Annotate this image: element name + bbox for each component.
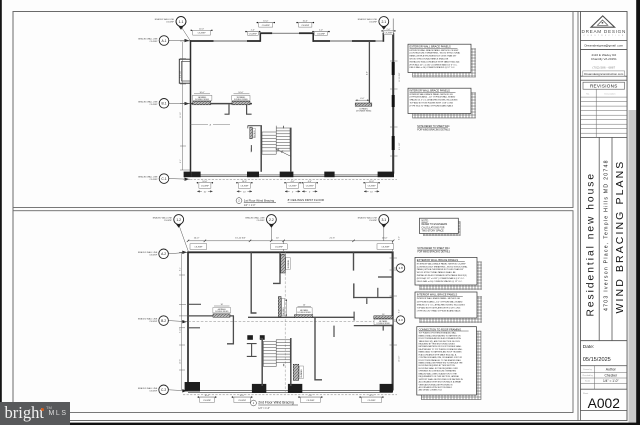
svg-text:CS-WSP: CS-WSP [201,185,210,187]
braced wall line label A.2 [138,251,158,257]
svg-text:A.1: A.1 [162,39,167,43]
svg-text:2.2: 2.2 [269,218,274,222]
svg-text:CS-WSP: CS-WSP [306,400,315,402]
note box: engineers calculations (plan2) [420,218,461,236]
closet stub walls below wall B.1 [225,104,230,114]
svg-text:CONNECTION TO ROOF FRAMING: CONNECTION TO ROOF FRAMING [419,327,462,331]
svg-text:CS-WSP: CS-WSP [368,400,377,402]
author/checker table [581,366,628,390]
stair treads plan2 (left run) [263,340,276,367]
balloon 2.2 [267,215,284,251]
svg-text:CONTINUOUS BAND, RIM, OR HEADE: CONTINUOUS BAND, RIM, OR HEADER JOIST OR [419,356,463,359]
svg-text:WOOD STRUCTURAL PANELS SHALL B: WOOD STRUCTURAL PANELS SHALL BE [417,271,456,274]
wall: plan2 right exterior [392,251,394,390]
svg-text:1st Floor Wind Bracing: 1st Floor Wind Bracing [244,198,275,202]
vertical text section [581,137,628,340]
hatch bar on mid wall (4B) [294,315,312,318]
svg-text:Checked by: Checked by [582,375,593,377]
right dimension ticks plan2 [390,258,398,345]
svg-text:10'-0": 10'-0" [242,181,247,183]
dream design triangle logo [591,16,615,27]
svg-text:CS-WSP: CS-WSP [150,41,159,43]
svg-text:BLOCKING SHALL NOT BE REQUIRED: BLOCKING SHALL NOT BE REQUIRED OVER [419,367,459,370]
svg-text:4'-0": 4'-0" [366,71,368,75]
svg-text:(CONTINUOUSLY SHEATHING - WOOD: (CONTINUOUSLY SHEATHING - WOOD STRUCTURA… [417,265,469,268]
braced wall line label 3.1 [358,217,378,223]
right dimension texts plan2 [398,236,403,362]
svg-text:CS-WSP: CS-WSP [198,33,207,35]
svg-text:10'-0": 10'-0" [369,181,374,183]
interior wall B.1 horizontal [191,103,253,105]
svg-text:DOUBLE SIDED: DOUBLE SIDED [234,99,249,101]
svg-text:5'-6 1/2": 5'-6 1/2" [180,70,182,78]
top viewport frame [13,12,573,208]
right dimension texts plan1 [399,72,401,150]
top CS-WSP boxes plan2 [190,244,394,249]
bottom CS-WSP boxes plan2 [198,395,217,402]
stairwell right wall [290,128,292,172]
svg-text:EXTERIOR WALL BRACE PANELS: EXTERIOR WALL BRACE PANELS [417,258,459,262]
svg-text:OPENINGS IN CONTINUOUSLY SHEAT: OPENINGS IN CONTINUOUSLY SHEATHED [419,370,457,373]
svg-text:1/4" = 1'-0": 1/4" = 1'-0" [258,407,270,410]
svg-text:A.2: A.2 [161,252,166,256]
date box [581,341,628,366]
svg-text:2nd Floor Wind Bracing: 2nd Floor Wind Bracing [258,401,294,405]
stair treads plan2 (right run) [276,340,290,363]
svg-text:CS-WSP: CS-WSP [238,400,247,402]
svg-text:4'-0": 4'-0" [308,395,312,397]
svg-text:BRACED WALL LINE: BRACED WALL LINE [138,387,158,390]
svg-text:BRACED WALL LINE: BRACED WALL LINE [153,217,173,220]
svg-text:1/4" = 1'-0": 1/4" = 1'-0" [603,379,619,383]
svg-text:10'-10": 10'-10" [398,356,400,362]
svg-text:BRACED WALL LINE: BRACED WALL LINE [155,18,175,21]
svg-text:CS-WSP: CS-WSP [257,220,266,222]
svg-text:BRACED WALL LINE: BRACED WALL LINE [138,318,158,321]
svg-text:ROOF TRUSS PARALLEL TO THE BRA: ROOF TRUSS PARALLEL TO THE BRACED WALL [419,359,462,362]
vertical dim arrow at x286 [285,299,287,316]
svg-text:CS-WSP: CS-WSP [166,22,175,24]
svg-text:CS-WSP: CS-WSP [306,185,315,187]
svg-text:CS-WSP: CS-WSP [149,254,158,256]
wall x315 plan2 [315,317,322,380]
svg-text:3'-6": 3'-6" [251,148,253,152]
svg-text:10'-0": 10'-0" [240,395,245,397]
logo box [581,12,628,41]
dashed braced line B.2 [184,321,396,323]
svg-text:INSTALLED IN ACCORDANCE WITH T: INSTALLED IN ACCORDANCE WITH TABLE R602.… [410,60,460,63]
sheet number box [581,389,628,410]
svg-text:15'-10 3/4": 15'-10 3/4" [235,238,246,240]
svg-text:BRACED WALL LINES. IN ADDITION: BRACED WALL LINES. IN ADDITION TO THE [419,372,458,375]
balloon 2.1 [379,17,393,34]
braced wall line label 2.2 [245,217,265,223]
svg-text:4'-0": 4'-0" [308,181,312,183]
svg-text:Author: Author [606,368,617,372]
bottom dashed reference line plan1 [183,178,397,180]
svg-text:4703 Iverson Place, Temple Hil: 4703 Iverson Place, Temple Hills MD 2074… [604,159,610,311]
svg-text:TOP PLATES OF EXTERIOR BRACED: TOP PLATES OF EXTERIOR BRACED WALL [419,332,457,335]
svg-text:FIELD NAIL at 16) COMMON SPACE: FIELD NAIL at 16) COMMON SPACED @ 12" O.… [410,66,456,69]
balloon 1.2 [174,215,188,251]
stub above h wall plan2 [377,288,379,298]
svg-text:9'-1": 9'-1" [180,159,182,163]
svg-text:WIND BRACING PLANS: WIND BRACING PLANS [614,160,626,314]
label box v2 panel [286,258,290,270]
svg-text:1/4" = 1'-0": 1/4" = 1'-0" [244,204,256,207]
svg-text:CS-WSP: CS-WSP [164,220,173,222]
svg-text:Sheet: Sheet [583,392,589,395]
svg-text:3'-10": 3'-10" [180,328,182,333]
bottom viewport frame [13,211,573,413]
stair break line plan1 [276,149,291,157]
bright MLS watermark [0,402,70,425]
balloon 2.3 [394,316,405,324]
svg-text:(GYPSUM BOARD) - 1/2" GYPSUM W: (GYPSUM BOARD) - 1/2" GYPSUM WALL BOARD [410,96,456,99]
svg-text:CS-WSP: CS-WSP [203,400,212,402]
svg-text:Date:: Date: [583,344,594,350]
hatch panel right of stair plan2 [293,364,298,380]
svg-text:10'-0": 10'-0" [200,92,205,94]
svg-text:10'-0": 10'-0" [382,238,388,240]
address box [581,50,628,77]
label box 1A panel [192,92,212,101]
bottom wall piers [184,172,394,178]
scan edge: bottom black bar [0,423,640,425]
svg-text:BLOCKING REQUIRED BY THIS SECT: BLOCKING REQUIRED BY THIS SECTION. [419,365,456,367]
svg-text:10'-0": 10'-0" [202,181,207,183]
left dimension ticks plan2 [179,252,187,390]
svg-text:REVISIONS: REVISIONS [590,84,618,89]
svg-text:4'-0": 4'-0" [360,98,364,100]
svg-text:3.1: 3.1 [381,218,386,222]
svg-text:BE ATTACHED TO TOP PLATES OF B: BE ATTACHED TO TOP PLATES OF BRACED WALL [419,348,463,351]
svg-text:EXTERIOR WALL BRACE PANEL: ME: EXTERIOR WALL BRACE PANEL: METHOD CS-WSP [410,49,459,52]
svg-text:CS-WSP: CS-WSP [381,247,390,249]
stub x334 plan2 [333,326,335,337]
svg-text:CS-WSP: CS-WSP [385,33,394,35]
wall stub x251 plan1 [250,145,252,151]
svg-text:CS-WSP: CS-WSP [149,390,158,392]
svg-text:CS-WSP: CS-WSP [249,33,258,35]
wall: plan2 bottom exterior (sill lines) [188,391,393,393]
scan edge: right black bar [636,0,640,425]
svg-text:PANEL) WITH A THICKNESS NOT LE: PANEL) WITH A THICKNESS NOT LESS THAN 3/… [410,55,457,58]
svg-text:(GYPSUM BOARD) - 1/2" GYPSUM W: (GYPSUM BOARD) - 1/2" GYPSUM WALL BOARD [417,300,463,303]
svg-text:VENTILATION SHALL BE PROVIDED: VENTILATION SHALL BE PROVIDED IN [419,383,453,386]
svg-text:9'-1": 9'-1" [402,264,404,268]
wall: plan1 right exterior [392,33,394,174]
balloon 3.1 [379,215,393,251]
svg-text:ACCORDANCE WITH SECTION R806.1: ACCORDANCE WITH SECTION R806.1 [419,386,453,389]
svg-text:11'-10 5/8": 11'-10 5/8" [399,72,401,82]
corner pier bottom-left plan2 [185,382,200,391]
svg-text:2.3: 2.3 [399,318,404,322]
svg-text:BRACED WALL LINE: BRACED WALL LINE [138,176,158,179]
svg-text:CS-WSP: CS-WSP [262,25,271,27]
svg-text:SUPPORT SHALL BE PROVIDED FOR: SUPPORT SHALL BE PROVIDED FOR RAFTERS IN [419,378,464,381]
scan edge: left black line [0,0,2,403]
label box for v2 lower panel [282,298,285,316]
door jamb blocks corridor plan2 [247,335,253,340]
svg-text:Dreamdesignconstruction.com: Dreamdesignconstruction.com [584,72,624,76]
svg-text:B.2: B.2 [161,319,166,323]
stairwell left wall plan2 [260,338,263,386]
svg-text:EXTERIOR WALL BRACE PANELS: EXTERIOR WALL BRACE PANELS [410,45,452,49]
brace hatch on mid wall left [213,314,230,317]
svg-text:10'-0": 10'-0" [369,395,374,397]
svg-text:ROOF TRUSSES ABOVE IN ACCORDAN: ROOF TRUSSES ABOVE IN ACCORDANCE WITH [419,337,462,340]
svg-text:No.: No. [586,94,590,96]
left dimension texts plan1 [180,70,182,163]
svg-text:2B PANEL: 2B PANEL [287,260,290,269]
svg-text:DOUBLE SIDED: DOUBLE SIDED [298,312,312,314]
note box: exterior wall brace panels (plan2) [420,262,482,290]
svg-text:(702) 586 - 6887: (702) 586 - 6887 [592,65,615,69]
svg-text:2.1: 2.1 [381,20,386,24]
svg-text:CS-WSP: CS-WSP [289,185,298,187]
balloon A.2 [159,249,188,259]
svg-text:REQUIREMENTS OF THIS SECTION,: REQUIREMENTS OF THIS SECTION, LATERAL [419,375,459,378]
svg-text:FOR WIND BRACING DETAILS: FOR WIND BRACING DETAILS [417,251,450,254]
svg-text:REFER TO ENGINEERS: REFER TO ENGINEERS [422,224,448,226]
braced wall line label B.1 [138,100,158,106]
svg-text:SPACED @ 4' O.C. ATTACHED EDGE: SPACED @ 4' O.C. ATTACHED EDGES, INCLUDI… [417,303,465,306]
brace panel 4A label [213,304,231,313]
stair down tick plan2 [283,364,285,366]
svg-text:C.2: C.2 [161,388,166,392]
svg-text:8' CEILINGS FIRST FLOOR: 8' CEILINGS FIRST FLOOR [288,198,324,202]
svg-text:2'-0": 2'-0" [387,29,391,31]
note: refer to sheet (plan2) [417,248,450,254]
svg-text:CS-WSP: CS-WSP [149,321,158,323]
stair treads plan1 (left run) [262,126,276,155]
svg-text:FOR WIND BRACING DETAILS: FOR WIND BRACING DETAILS [417,128,450,131]
long interior wall h mid plan2 [188,315,234,317]
svg-text:BRACED WALL LINE: BRACED WALL LINE [358,18,378,21]
svg-text:INTERIOR WALL BRACE PANELS: INTERIOR WALL BRACE PANELS [410,89,451,93]
svg-text:CALCULATIONS FOR: CALCULATIONS FOR [422,226,445,229]
note box: exterior wall brace panels (plan1) [413,49,476,78]
svg-text:TOP AND BOTTOM PLATES WITH 1 5: TOP AND BOTTOM PLATES WITH 1 5/8" LONG [410,102,454,105]
svg-text:2'-0": 2'-0" [319,30,323,32]
svg-text:(TYPE W) 0.92" HEAD GYPSUM BOA: (TYPE W) 0.92" HEAD GYPSUM BOARD NAILS [410,104,454,107]
svg-text:DOUBLE SIDED: DOUBLE SIDED [215,311,229,313]
label box 1B panel [232,92,250,101]
interior wall vertical (storage) [368,41,370,103]
svg-text:Scale: Scale [585,380,591,382]
svg-text:1.1: 1.1 [179,20,184,24]
svg-text:(TYPE W) 0.92" HEAD GYPSUM BOA: (TYPE W) 0.92" HEAD GYPSUM BOARD NAILS [417,310,461,313]
balloon C.1 [159,174,190,184]
svg-text:INTERIOR WALL BRACE PANELS: INTERIOR WALL BRACE PANELS [417,293,458,297]
drawing title plan2 [251,400,298,410]
top dimension texts plan2 [194,238,388,240]
svg-text:CS-WSP: CS-WSP [369,22,378,24]
svg-text:CS-WSP: CS-WSP [240,185,249,187]
svg-text:(FOR 8d(2 1/2" x 0.131") COMMO: (FOR 8d(2 1/2" x 0.131") COMMON NAILS @ … [410,63,458,66]
wall h y325 right plan2 [354,325,393,327]
svg-text:CS-WSP: CS-WSP [275,247,284,249]
braced wall line label 1.1 [155,18,175,24]
svg-text:AND DETAIL CONNECT D4: AND DETAIL CONNECT D4 [419,389,442,392]
svg-text:CS-WSP: CS-WSP [369,220,378,222]
vertical hatch panel below wall v2 [278,297,281,317]
svg-text:INTERIOR WALL BRACE PANEL: ME: INTERIOR WALL BRACE PANEL: METHOD GB [417,297,461,300]
balloon A.1 [159,36,190,46]
svg-text:CS-WSP: CS-WSP [317,33,326,35]
svg-text:C.1: C.1 [161,177,166,181]
svg-text:05/15/2025: 05/15/2025 [583,357,611,363]
interior wall v1 plan2 [251,252,256,313]
bottom dim arrows plan1 [197,191,379,193]
svg-text:BRACED WALL LINE: BRACED WALL LINE [358,217,378,220]
brace panel 2A plan1 [250,127,253,139]
stub wall x366 plan2 [366,298,368,304]
svg-text:PANELS SHALL BE ATTACHED TO RA: PANELS SHALL BE ATTACHED TO RAFTERS OR [419,334,462,337]
balloon B.2 [159,316,188,326]
braced wall line label C.2 [138,387,158,393]
stub wall right upper plan2 [378,276,393,278]
svg-text:Description: Description [605,93,617,96]
svg-text:Dreamdesignva@gmail .com: Dreamdesignva@gmail .com [585,43,624,47]
svg-text:CS-WSP: CS-WSP [368,185,377,187]
balloon B.1 [159,99,190,109]
svg-text:9'-1 1/2": 9'-1 1/2" [399,142,401,150]
scan edge: right gray strip [629,110,637,425]
svg-text:ACCORDANCE WITH SECTION R802.8: ACCORDANCE WITH SECTION R802.8. A SHEAR [419,381,462,384]
svg-text:Residential new house: Residential new house [586,172,597,317]
svg-text:B.1: B.1 [162,102,167,106]
svg-text:IN ACCORDANCE WITH TABLE R602.: IN ACCORDANCE WITH TABLE R602.3(1). A [419,353,457,356]
balloon C.2 [159,385,188,395]
svg-text:SPACED @ 4' O.C. ATTACHED EDGE: SPACED @ 4' O.C. ATTACHED EDGES, INCLUDI… [410,99,458,102]
I-wall x251 plan2 [247,344,257,357]
svg-text:Chantilly VA 20151: Chantilly VA 20151 [591,57,617,61]
left dimension ticks plan1 [180,41,190,170]
svg-text:DREAM DESIGN: DREAM DESIGN [581,29,626,34]
svg-text:6'-2": 6'-2" [398,309,400,313]
dashed vertical braced line plan2 [284,252,286,394]
svg-text:(STORAGE WIND): (STORAGE WIND) [356,110,372,113]
stub walls left side plan2 [188,303,201,305]
stub wall x354 at mid wall end [353,312,355,321]
svg-text:Drawn by: Drawn by [583,369,591,371]
stair up arrow tick plan1 [283,126,285,129]
svg-text:Checker: Checker [604,373,617,377]
interior wall v3 plan2 [353,252,355,270]
svg-text:C O N S T R U C T I O N: C O N S T R U C T I O N [584,35,625,37]
brace panels on right wall [392,62,395,150]
window bay left wall [179,59,190,83]
svg-text:BRACED WALL LINE: BRACED WALL LINE [138,251,158,254]
top dimension line plan2 [187,240,395,242]
svg-text:TOP AND BOTTOM PLATES WITH 1 5: TOP AND BOTTOM PLATES WITH 1 5/8" LONG [417,307,461,310]
svg-text:3A PANEL: 3A PANEL [282,307,285,315]
wall: plan1 left exterior [190,40,192,172]
svg-text:INSTALLED IN ACCORDANCE WITH T: INSTALLED IN ACCORDANCE WITH TABLE R602.… [417,274,467,277]
svg-text:PANEL) WITH A THICKNESS NOT LE: PANEL) WITH A THICKNESS NOT LESS THAN 3/… [417,268,464,271]
svg-text:10'-0": 10'-0" [263,21,268,23]
svg-text:2A PANEL: 2A PANEL [300,369,303,378]
brace panel on wall v2 [281,254,286,273]
svg-text:BRACED WALL LINE: BRACED WALL LINE [138,38,158,41]
svg-text:A002: A002 [588,396,620,411]
bottom wall piers plan2 [252,384,393,393]
interior wall h right plan2 [353,297,393,299]
right dimension ticks plan1 [390,61,398,156]
svg-text:10'-0": 10'-0" [238,92,243,94]
stair treads plan1 (right run) [276,128,290,151]
revisions box [581,80,628,137]
braced wall line label 1.2 [153,217,173,223]
svg-text:CS-WSP: CS-WSP [194,247,203,249]
svg-text:CS-WSP: CS-WSP [150,179,159,181]
note box: interior wall brace panels (plan2) [420,296,482,322]
svg-text:REQUIRED BY THIS SECTION BLOCK: REQUIRED BY THIS SECTION BLOCKING [419,344,456,346]
email box [581,40,628,49]
wall: plan2 left exterior [187,251,189,384]
svg-text:BRACED WALL LINE: BRACED WALL LINE [245,217,265,220]
beam line [191,123,231,125]
dim CS-WSP boxes along plan1 bottom wall [197,181,213,188]
svg-text:PANELS SHALL BE PERMITTED TO R: PANELS SHALL BE PERMITTED TO REPLACE THE [419,362,464,365]
braced wall line label C.1 [138,176,158,182]
interior wall v2 plan2 [273,252,280,283]
braced wall line label 2.1 [358,18,378,24]
svg-text:4'-0": 4'-0" [291,181,295,183]
svg-text:2'-0": 2'-0" [398,236,400,240]
svg-text:FIELD NAIL at 16) COMMON SPACE: FIELD NAIL at 16) COMMON SPACED @ 12" O.… [417,280,463,283]
svg-text:CS-WSP: CS-WSP [150,104,159,106]
svg-text:TABLE R602.3(1), AND THIS SECT: TABLE R602.3(1), AND THIS SECTION. BLOCK… [419,340,461,343]
wall: plan1 top exterior [190,33,394,42]
svg-text:CS-WSP: CS-WSP [301,25,310,27]
dashed braced line bottom plan2 [183,394,397,396]
brace panel 1B storage [355,98,372,113]
wall: plan1 bottom exterior (sill lines) [191,175,394,177]
left dimension texts plan2 [180,267,182,364]
brace panel 1A on wall B.1 [193,101,211,104]
TITLEBLOCK [578,12,627,421]
svg-text:WOOD STRUCTURAL PANELS SHALL B: WOOD STRUCTURAL PANELS SHALL BE [410,58,449,61]
svg-text:DOUBLE SIDED: DOUBLE SIDED [377,323,391,325]
svg-text:1.2: 1.2 [176,218,181,222]
dim CS-WSP boxes along plan1 top wall [191,28,213,35]
wall x233 plan2 [227,316,233,344]
svg-text:2'-0": 2'-0" [251,30,255,32]
drawing title plan1 [236,198,324,207]
svg-text:11'-10": 11'-10" [180,112,182,118]
svg-text:10'-0": 10'-0" [194,238,200,240]
svg-text:10'-0": 10'-0" [303,21,308,23]
svg-text:9'-1": 9'-1" [180,267,182,271]
svg-text:PANELS AND TO RAFTERS AND ROOF: PANELS AND TO RAFTERS AND ROOF TRUSSES [419,351,463,354]
svg-text:INTERIOR WALL BRACE PANEL: ME: INTERIOR WALL BRACE PANEL: METHOD GB [410,93,454,96]
balloon 1.1 [176,17,190,41]
note: refer to sheet (plan1) [417,126,450,131]
wall: plan2 top exterior [188,251,393,253]
svg-text:DOUBLE SIDED: DOUBLE SIDED [195,99,210,101]
svg-text:(CONTINUOUSLY SHEATHING - WOOD: (CONTINUOUSLY SHEATHING - WOOD STRUCTURA… [410,52,462,55]
note box: interior wall brace panels (plan1) [413,93,476,119]
title block double left border [577,12,579,421]
svg-text:10'-0": 10'-0" [204,395,209,397]
svg-text:BETWEEN RAFTERS OR ROOF TRUSSE: BETWEEN RAFTERS OR ROOF TRUSSES SHALL [419,345,462,348]
svg-text:EXTERIOR WALL BRACE PANEL: ME: EXTERIOR WALL BRACE PANEL: METHOD CS-WSP [417,262,466,265]
note box: connection to roof framing (plan2) [421,331,481,400]
brace panel 4B + hatch right of mid wall [374,316,393,319]
